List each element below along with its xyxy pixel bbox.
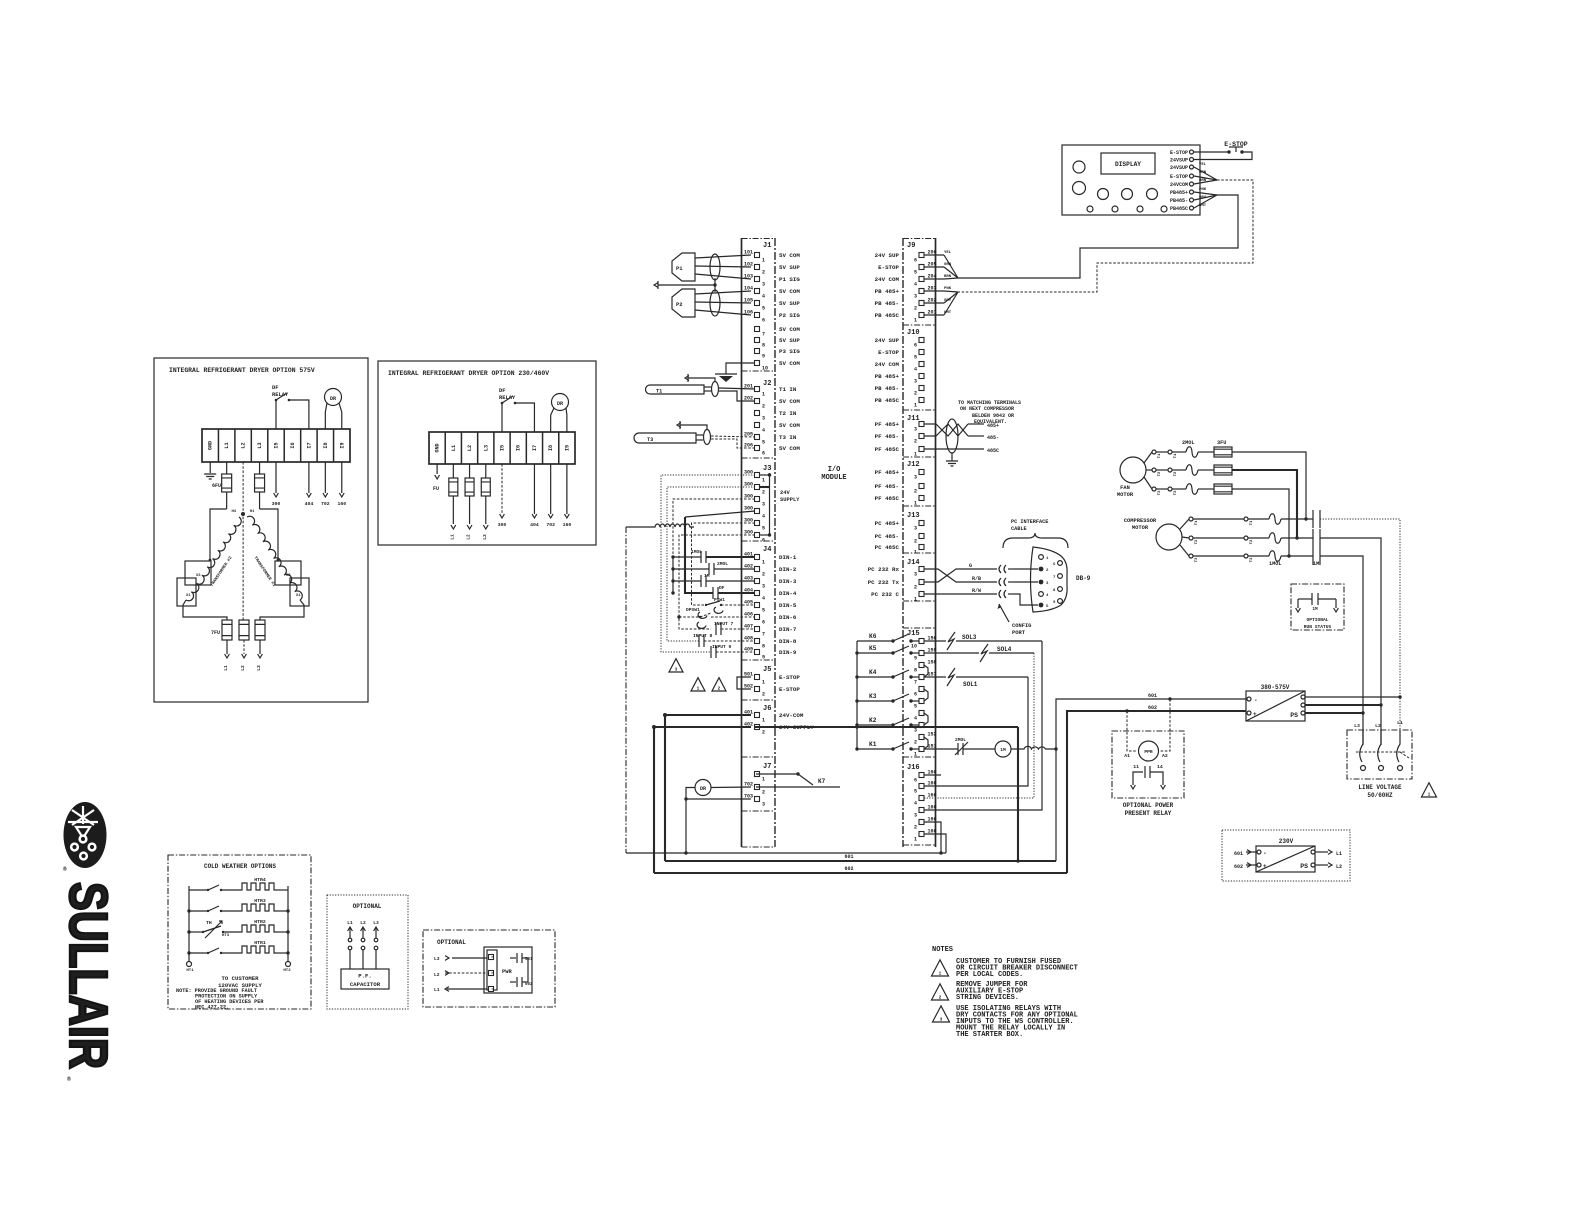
svg-text:ON NEXT COMPRESSOR: ON NEXT COMPRESSOR [960,406,1014,412]
svg-text:T1: T1 [1158,453,1162,458]
svg-text:I6: I6 [516,445,522,451]
svg-text:PRESENT RELAY: PRESENT RELAY [1125,810,1172,817]
svg-text:OPTIONAL: OPTIONAL [437,939,466,946]
svg-text:DB-9: DB-9 [1076,575,1091,582]
svg-text:1M: 1M [1000,747,1006,753]
svg-text:DIN-4: DIN-4 [779,590,797,597]
warning triangle 3 [669,659,683,672]
PS output to L2 [1305,704,1381,706]
svg-text:J12: J12 [907,461,920,469]
relay coil DR 575V [325,389,342,406]
svg-text:2: 2 [762,404,765,410]
display led 4 [1161,206,1167,212]
fuses FU L1 L2 L3 [452,464,454,478]
svg-text:J16: J16 [907,764,920,772]
svg-text:H1: H1 [250,510,255,514]
svg-text:702: 702 [546,522,555,528]
svg-text:2: 2 [762,572,765,578]
shield drain wire to chassis [658,284,715,286]
svg-text:PC 232 C: PC 232 C [871,591,899,598]
svg-text:485-: 485- [987,435,999,441]
solenoid SOL4 [924,652,979,654]
svg-text:2: 2 [914,740,917,746]
svg-text:6: 6 [914,258,917,264]
display button medium 1 [1098,189,1109,200]
svg-text:+: + [1253,711,1257,718]
svg-text:L3: L3 [256,665,262,671]
wire G crossover [924,569,996,582]
svg-text:K1: K1 [869,741,877,748]
bus 601 [665,860,1056,862]
svg-text:PF 485C: PF 485C [875,495,900,502]
fan wire run T1 [1232,452,1306,519]
fan lead terminal T3 [1152,487,1156,491]
svg-text:10: 10 [911,644,917,650]
svg-text:24V SUP: 24V SUP [875,252,900,259]
DB-9 pin 6 [1058,561,1063,566]
svg-text:NOTES: NOTES [932,946,953,954]
svg-text:4: 4 [914,282,917,288]
svg-text:SULLAIR: SULLAIR [58,882,118,1069]
svg-text:A2: A2 [1162,753,1168,759]
svg-text:I8: I8 [548,445,554,451]
svg-text:J3: J3 [763,465,771,473]
svg-text:1: 1 [914,501,917,507]
svg-text:T1: T1 [1174,453,1178,458]
fan lead terminal T2 [1152,468,1156,472]
svg-text:I7: I7 [532,445,538,451]
svg-text:3: 3 [762,802,765,808]
svg-text:L3: L3 [373,920,379,926]
svg-text:L2: L2 [434,972,440,978]
svg-text:1MOL: 1MOL [1269,561,1281,567]
svg-text:L1: L1 [1397,720,1403,726]
svg-text:24VSUP: 24VSUP [1170,165,1188,171]
svg-text:HTR2: HTR2 [254,919,266,925]
svg-text:-: - [1254,697,1258,704]
svg-text:6FU: 6FU [212,483,221,489]
svg-text:L2: L2 [1375,723,1381,729]
compressor lead terminal T2 [1189,536,1193,540]
svg-text:160: 160 [337,501,346,507]
svg-text:L3: L3 [483,445,489,451]
E-STOP loop wire [1194,152,1252,160]
dryer output I5 wire 300 [275,462,277,493]
PS 230V body [1256,846,1315,872]
motor COMPRESSOR MOTOR [1156,524,1182,550]
svg-text:GRY: GRY [944,299,952,303]
svg-text:INPUT 9: INPUT 9 [712,644,732,650]
svg-text:6: 6 [762,318,765,324]
J9 cable fan to bundle [944,255,958,278]
svg-text:I9: I9 [564,445,570,451]
svg-text:24VSUP: 24VSUP [1170,158,1188,164]
display button medium 3 [1147,189,1158,200]
svg-text:HT3: HT3 [222,934,230,938]
dryer 230/460V terminal strip [429,432,575,464]
svg-text:PC INTERFACE: PC INTERFACE [1011,519,1048,525]
svg-text:PORT: PORT [1012,630,1026,636]
J16 pin2 wire [924,822,941,853]
svg-text:T3: T3 [1158,490,1162,495]
svg-text:1: 1 [762,777,765,783]
svg-text:DIN-7: DIN-7 [779,626,797,633]
svg-text:1: 1 [914,837,917,843]
svg-text:5: 5 [914,355,917,361]
svg-text:T2: T2 [1195,539,1199,544]
svg-text:BRN: BRN [944,275,952,279]
E-STOP pushbutton [1194,151,1228,153]
svg-text:DIN-5: DIN-5 [779,602,797,609]
svg-text:R/W: R/W [972,588,981,594]
svg-text:2: 2 [914,306,917,312]
svg-text:E-STOP: E-STOP [779,686,800,693]
svg-text:T2: T2 [1250,539,1254,544]
svg-text:PB485-: PB485- [1170,198,1188,204]
svg-text:DIN-8: DIN-8 [779,638,797,645]
integral refrigerant dryer option 575V box [154,358,368,702]
cable shield ellipse T1 [712,382,719,397]
svg-text:5V SUP: 5V SUP [779,264,800,271]
svg-text:K4: K4 [869,669,877,676]
svg-text:3: 3 [914,294,917,300]
fan motor leads [1144,452,1152,463]
svg-text:PER LOCAL CODES.: PER LOCAL CODES. [956,971,1023,979]
svg-text:FU: FU [433,486,439,492]
twisted pair at J11 [924,424,968,436]
svg-text:TO CUSTOMER: TO CUSTOMER [222,975,260,982]
motor FAN MOTOR [1120,457,1146,483]
svg-text:3: 3 [914,526,917,532]
wire to DB9 pin3 [1014,581,1038,583]
pressure transducer P2 [672,289,695,317]
svg-text:5: 5 [914,270,917,276]
svg-text:L2: L2 [240,665,246,671]
svg-text:K3: K3 [869,693,877,700]
svg-text:L1: L1 [1336,851,1342,857]
svg-text:E-STOP: E-STOP [878,264,899,271]
relay coil DR 230/460V [552,394,569,411]
svg-text:601: 601 [1148,693,1157,699]
svg-text:1M: 1M [1313,561,1319,567]
svg-text:K2: K2 [869,717,877,724]
svg-text:1: 1 [914,318,917,324]
L3 tap to right winding [260,509,278,560]
svg-text:3: 3 [762,282,765,288]
wire 300 from J3-5 to PSW1 [692,523,756,605]
wire 402 to relay bus and drop [754,726,1018,728]
T3 shield stub [680,425,707,429]
svg-text:24V SUP: 24V SUP [875,337,900,344]
svg-text:DR: DR [557,401,563,407]
svg-text:6: 6 [914,692,917,698]
svg-text:50/60HZ: 50/60HZ [1367,792,1393,799]
display button medium 2 [1122,189,1133,200]
svg-text:300: 300 [744,506,753,512]
svg-text:K7: K7 [818,778,826,785]
svg-text:DISPLAY: DISPLAY [1115,161,1141,168]
bus 602 [654,872,1067,874]
svg-text:5V COM: 5V COM [779,360,800,367]
PWR pin strip [487,950,497,990]
display cable run dashed [958,180,1253,292]
wire DR to J7-2 [711,786,751,789]
svg-text:8: 8 [914,668,917,674]
svg-text:PB 485-: PB 485- [875,300,899,307]
relay contact bus from wire 402 [856,641,858,749]
svg-text:HTR4: HTR4 [254,877,266,883]
svg-text:J6: J6 [763,705,771,713]
svg-text:1: 1 [762,478,765,484]
svg-text:®: ® [67,1076,71,1083]
svg-text:L1: L1 [434,987,440,993]
svg-text:152: 152 [928,732,937,738]
svg-text:5: 5 [914,704,917,710]
pressure transducer P1 [672,253,695,281]
display panel box [1062,145,1200,215]
wire R/W [924,593,996,595]
svg-text:E-STOP: E-STOP [1170,150,1188,156]
svg-text:NEC 427-22.: NEC 427-22. [195,1005,229,1011]
compressor lead terminal T3 [1189,554,1193,558]
svg-text:L1: L1 [223,665,229,671]
L2 output stub [1315,864,1328,866]
dryer output I9 wire 160 [341,462,343,493]
svg-text:2: 2 [914,585,917,591]
cable brace [1003,533,1068,548]
svg-text:DR: DR [330,396,336,402]
svg-text:3: 3 [675,667,678,673]
wire 401 24V-COM from J6-1 to bus 601 [665,715,751,861]
svg-text:SOL4: SOL4 [997,646,1012,653]
relay coil 1M [995,741,1011,757]
svg-text:I5: I5 [500,445,506,451]
svg-text:GND: GND [208,441,214,450]
svg-text:7FU: 7FU [211,630,220,636]
svg-text:6: 6 [762,620,765,626]
svg-text:PB485C: PB485C [1170,206,1188,212]
svg-text:5: 5 [762,306,765,312]
svg-text:3: 3 [914,475,917,481]
svg-text:GRY: GRY [1199,196,1207,200]
solenoid SOL3 [924,640,946,642]
svg-text:1M: 1M [704,573,710,579]
svg-text:1: 1 [914,752,917,758]
return wire line 853 [626,852,946,854]
svg-text:2MOL: 2MOL [955,737,966,743]
svg-text:+: + [1263,863,1267,870]
right secondary box [275,561,301,585]
I/O module right column frame [902,238,904,847]
SOL1 return riser to J16-5 [924,677,1028,786]
svg-text:T1: T1 [656,389,662,395]
DB-9 pin 5 [1039,603,1044,608]
svg-text:INTEGRAL REFRIGERANT DRYER OPT: INTEGRAL REFRIGERANT DRYER OPTION 230/46… [388,370,549,377]
svg-text:4: 4 [762,514,765,520]
svg-text:L2: L2 [360,920,366,926]
svg-text:601: 601 [1234,851,1243,857]
svg-text:SOL1: SOL1 [963,681,978,688]
svg-text:HTR3: HTR3 [254,898,266,904]
DB-9 pin 4 [1039,592,1044,597]
display led 2 [1112,206,1118,212]
svg-text:1: 1 [914,597,917,603]
svg-text:300: 300 [272,501,281,507]
svg-text:PB 485C: PB 485C [875,397,900,404]
svg-text:L2: L2 [467,445,473,451]
svg-text:T2 IN: T2 IN [779,410,797,417]
svg-text:24V: 24V [780,490,790,496]
wire 485- [968,435,984,437]
transformer left primary winding [186,517,241,601]
svg-text:L3: L3 [257,442,263,448]
svg-text:CAPACITOR: CAPACITOR [350,981,381,988]
SOL3 return riser to J16-3 [924,641,1042,810]
svg-text:PF 485+: PF 485+ [875,469,900,476]
warning triangle 2 near J5 [712,678,726,691]
dryer 230 output I9 wire 160 [566,464,568,514]
svg-text:CABLE: CABLE [1011,526,1027,532]
warning triangle 1 line voltage [1422,783,1437,797]
DB-9 pin 2 [1039,567,1044,572]
display cable bundle fan [1194,167,1217,180]
DB-9 pin 8 [1058,587,1063,592]
wire 485C [924,448,984,450]
svg-text:T2: T2 [1158,471,1162,476]
svg-text:5: 5 [762,526,765,532]
svg-text:L1: L1 [451,445,457,451]
svg-text:PB 485+: PB 485+ [875,288,900,295]
phase L2 run [1320,538,1381,745]
svg-text:2: 2 [914,439,917,445]
svg-text:I6: I6 [290,442,296,448]
right winding bottom lead [260,600,304,620]
contact 1M aux [1298,598,1312,600]
fan lead terminal T1 [1152,450,1156,454]
svg-text:PPR: PPR [1144,749,1153,755]
svg-text:PC 485-: PC 485- [875,533,899,540]
left winding bottom lead [183,600,227,620]
svg-text:COLD WEATHER OPTIONS: COLD WEATHER OPTIONS [204,863,276,870]
connector DB-9 body [1031,547,1068,612]
svg-text:3: 3 [914,813,917,819]
T1 shield stub [688,378,715,381]
svg-text:DF: DF [272,385,278,391]
svg-text:14: 14 [1157,764,1163,770]
svg-text:5V COM: 5V COM [779,252,800,259]
svg-text:L2: L2 [1336,864,1342,870]
svg-text:8: 8 [762,644,765,650]
svg-text:2: 2 [762,692,765,698]
svg-text:J11: J11 [907,415,920,423]
warning triangle 1 near J5 [691,678,705,691]
svg-text:4: 4 [762,428,765,434]
svg-text:2: 2 [762,730,765,736]
optional power present relay box [1112,731,1184,798]
svg-text:J10: J10 [907,329,920,337]
svg-text:P1: P1 [676,265,683,272]
svg-text:T1 IN: T1 IN [779,386,797,393]
svg-text:2: 2 [914,825,917,831]
optional PF capacitor box [327,895,408,1009]
svg-text:COMPRESSOR: COMPRESSOR [1124,518,1157,524]
svg-text:3: 3 [762,584,765,590]
svg-text:6: 6 [762,538,765,544]
svg-text:X1: X1 [296,594,301,598]
svg-text:MODULE: MODULE [821,474,846,482]
svg-text:T3: T3 [1195,557,1199,562]
svg-text:SUPPLY: SUPPLY [780,497,800,503]
svg-text:5: 5 [762,608,765,614]
svg-text:PF 485-: PF 485- [875,483,899,490]
svg-text:24V-COM: 24V-COM [779,712,804,719]
dryer 230 output I7 wire 404 [533,464,535,514]
svg-text:PNK: PNK [1199,188,1207,192]
svg-text:E-STOP: E-STOP [878,349,899,356]
svg-text:H4: H4 [231,510,236,514]
svg-text:1: 1 [762,718,765,724]
svg-text:J9: J9 [907,242,915,250]
svg-text:3: 3 [914,379,917,385]
DB-9 pin 3 [1039,580,1044,585]
L2 feed dashed [242,462,244,620]
svg-text:404: 404 [530,522,539,528]
svg-text:24V COM: 24V COM [875,276,900,283]
svg-text:2MOL: 2MOL [1182,440,1194,446]
svg-text:FAN: FAN [1120,485,1130,491]
wire 300 from J3-1 to INPUT 9 [661,475,755,652]
left heater bus HT1 [188,886,190,962]
temperature probe T1 [646,385,705,394]
cable shield ellipse T3 [704,430,711,445]
svg-text:2: 2 [762,490,765,496]
svg-text:2: 2 [718,686,721,692]
svg-text:LINE VOLTAGE: LINE VOLTAGE [1358,784,1402,791]
cable break marks [999,565,1006,573]
svg-text:L3: L3 [482,534,488,540]
risers 601/602 to power supply [1056,699,1246,861]
svg-text:PB 485+: PB 485+ [875,373,900,380]
svg-text:5V COM: 5V COM [779,326,800,333]
svg-text:DF: DF [499,388,505,394]
svg-text:24V COM: 24V COM [875,361,900,368]
optional run status box [1291,584,1344,630]
svg-text:X2: X2 [286,574,291,578]
svg-text:158: 158 [928,660,937,666]
wire 300 from J3-3 to input feeder [673,499,755,557]
svg-text:404: 404 [305,501,314,507]
svg-text:1: 1 [762,680,765,686]
svg-text:P2 SIG: P2 SIG [779,312,800,319]
relay coil DR [695,780,711,796]
svg-text:OPTIONAL POWER: OPTIONAL POWER [1123,802,1174,809]
svg-text:1: 1 [914,403,917,409]
svg-text:GND: GND [435,443,441,452]
svg-text:MOTOR: MOTOR [1117,492,1134,498]
svg-text:601: 601 [844,854,853,860]
dryer 230 output I5 wire 300 [501,464,503,514]
PF capacitor body [341,969,389,989]
svg-text:1M: 1M [1312,607,1318,612]
svg-text:T1: T1 [1195,520,1199,525]
svg-text:3: 3 [762,502,765,508]
svg-text:J2: J2 [763,380,771,388]
svg-text:L1: L1 [224,442,230,448]
J16 pin1 wire to return [924,834,946,853]
svg-text:P1 SIG: P1 SIG [779,276,800,283]
svg-text:HT1: HT1 [186,969,194,973]
svg-text:PNK: PNK [944,287,952,291]
